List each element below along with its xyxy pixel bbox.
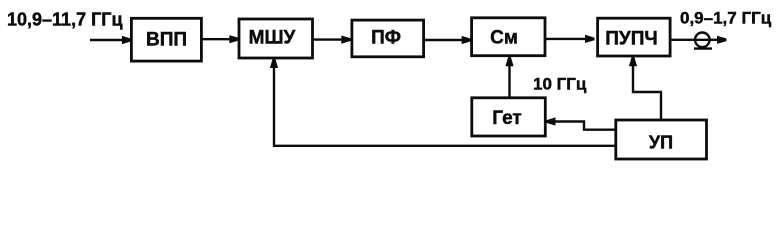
block MShU (low-noise amplifier) — [239, 19, 313, 58]
arrowhead into MShU — [229, 35, 239, 43]
wire input — [90, 39, 124, 41]
wire Sm to PUPCh — [545, 38, 587, 40]
arrowhead output — [717, 36, 727, 44]
svg-text:МШУ: МШУ — [249, 28, 296, 49]
svg-text:10,9–11,7 ГГц: 10,9–11,7 ГГц — [7, 10, 123, 30]
wire Get to Sm vertical — [508, 64, 510, 98]
svg-text:См: См — [490, 28, 518, 49]
block Sm (mixer) — [472, 18, 545, 56]
wire PUPCh to output — [670, 39, 717, 41]
wire UP to Get with jog — [554, 122, 616, 130]
wire MShU to PF — [313, 38, 343, 40]
svg-text:ПУПЧ: ПУПЧ — [605, 29, 657, 50]
arrowhead into PUPCh — [585, 35, 595, 43]
block VPP (input bandpass) — [131, 18, 201, 61]
arrowhead into PF — [341, 36, 351, 44]
arrowhead into Sm — [462, 36, 472, 44]
svg-text:ВПП: ВПП — [146, 30, 187, 51]
output connector circle — [695, 33, 710, 48]
svg-text:УП: УП — [649, 133, 673, 153]
arrowhead into VPP — [122, 36, 132, 44]
block PF (bandpass filter) — [352, 20, 424, 57]
block Get (local oscillator) — [472, 98, 546, 136]
arrowhead into Sm bottom — [505, 57, 513, 67]
arrowhead into MShU bottom — [270, 59, 278, 69]
wire PF to Sm — [424, 39, 463, 41]
wire VPP to MShU — [202, 38, 230, 40]
wire UP to MShU feedback — [274, 66, 616, 146]
svg-text:Гет: Гет — [492, 108, 521, 129]
wire UP to PUPCh — [633, 65, 661, 121]
block UP (control unit) — [616, 120, 707, 159]
svg-text:10 ГГц: 10 ГГц — [533, 75, 587, 94]
arrowhead into PUPCh bottom — [629, 57, 637, 67]
svg-text:0,9–1,7 ГГц: 0,9–1,7 ГГц — [680, 9, 772, 28]
block PUPCh (preamplifier IF) — [598, 18, 671, 56]
svg-text:ПФ: ПФ — [371, 28, 401, 49]
output connector base line — [694, 47, 712, 49]
arrowhead into Get right side — [546, 117, 556, 125]
